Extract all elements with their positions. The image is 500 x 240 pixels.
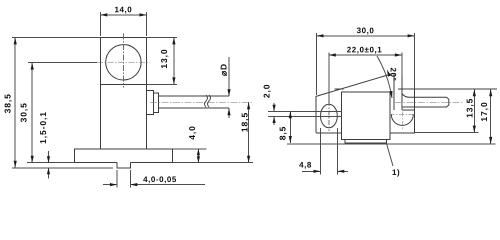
bracket outline [316,74,415,133]
dim 22,0±0,1 [329,45,402,103]
dim 38,5 left [3,37,114,167]
dim dia D [218,57,230,118]
svg-text:1): 1) [392,168,400,177]
rod break squiggle [205,95,211,107]
dim 13,0 [147,37,178,84]
body outline left view [100,37,146,148]
svg-text:2,0: 2,0 [261,84,271,99]
narrow column [394,74,414,110]
svg-text:4,8: 4,8 [299,160,312,169]
dim 8,5 [277,111,292,143]
dim 13,5 [415,89,479,132]
svg-text:1,5-0,1: 1,5-0,1 [38,111,48,144]
svg-text:4,0-0,05: 4,0-0,05 [143,175,177,184]
dim 4,0-0,05 bottom [103,170,205,188]
note 1) [387,144,401,178]
dim 30,5 left [18,63,97,163]
dim 14,0 top [100,5,146,36]
svg-text:38,5: 38,5 [3,93,13,113]
svg-text:13,5: 13,5 [464,98,474,118]
dim 17,0 [287,89,496,144]
dim 4,0 right [172,125,206,162]
plug collar [147,91,159,115]
svg-text:17,0: 17,0 [479,101,489,121]
svg-text:⌀D: ⌀D [218,63,228,76]
switch body rect [342,92,390,143]
svg-text:30,5: 30,5 [18,102,28,122]
mounting slot [321,101,338,131]
head hole circle [97,34,150,88]
dim 2,0 [261,84,342,125]
hole circle right [390,102,415,129]
svg-text:13,0: 13,0 [159,48,169,68]
dim 20 deg [335,56,398,98]
svg-text:30,0: 30,0 [357,26,375,35]
svg-text:18,5: 18,5 [240,112,250,132]
dim 1,5-0,1 [38,111,50,178]
svg-text:14,0: 14,0 [115,5,133,14]
dim 30,0 [317,26,415,95]
bottom tab [117,163,130,168]
svg-text:8,5: 8,5 [277,126,287,141]
svg-text:20°: 20° [389,67,398,81]
top right edge line [398,88,497,90]
dim 4,8 [299,128,348,175]
svg-text:22,0±0,1: 22,0±0,1 [347,45,382,54]
rod right view [395,93,463,107]
svg-text:4,0: 4,0 [187,125,197,140]
rod left view [150,96,252,108]
pedestal base [75,149,173,163]
dim 18,5 [172,102,253,163]
